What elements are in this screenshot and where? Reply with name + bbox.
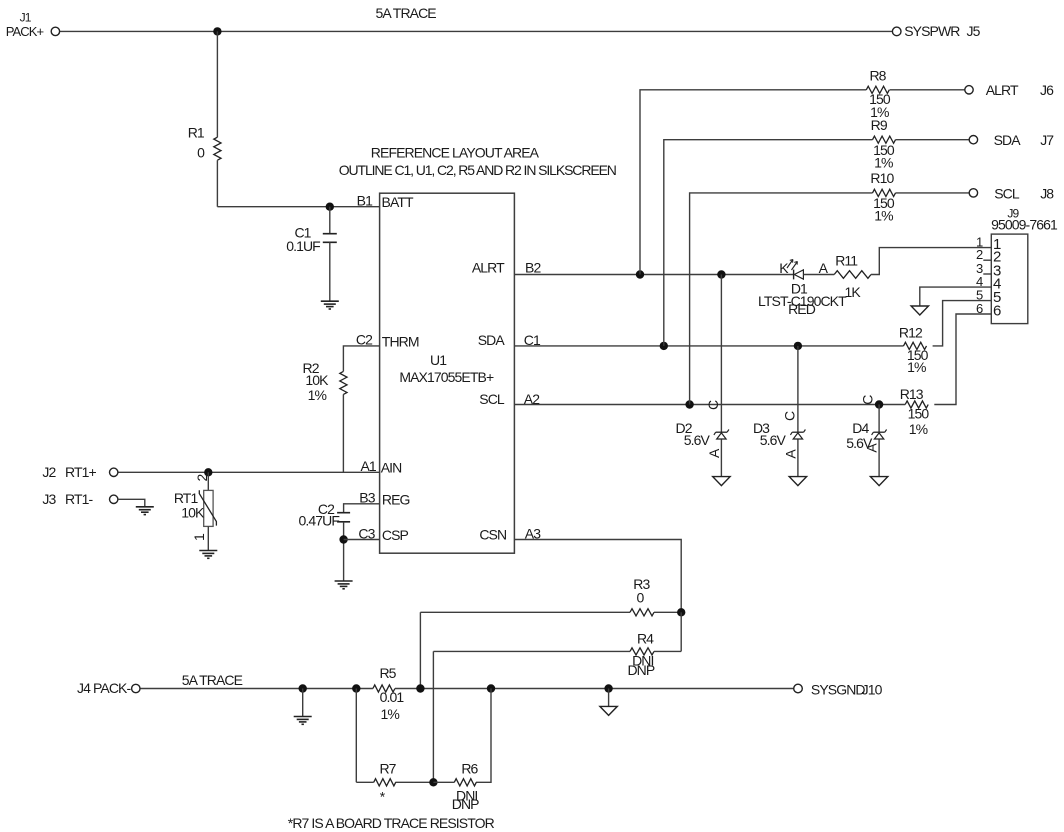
node R7 leg	[352, 684, 360, 692]
svg-text:0.47UF: 0.47UF	[298, 513, 339, 529]
svg-text:R6: R6	[461, 760, 478, 776]
svg-text:MAX17055ETB+: MAX17055ETB+	[399, 369, 494, 385]
terminal J10 SYSGND	[794, 684, 803, 693]
svg-text:R4: R4	[637, 630, 654, 646]
LED D1 LTST-C190CKT	[793, 270, 795, 280]
wire R3-R4 vertical	[680, 612, 682, 651]
wire J3 to ground	[118, 499, 145, 507]
svg-text:RT1-: RT1-	[65, 491, 93, 507]
svg-text:6: 6	[993, 302, 1001, 319]
wire R3 row	[420, 612, 681, 688]
wire SCL net	[514, 314, 991, 405]
capacitor C2	[337, 513, 350, 522]
svg-text:CSP: CSP	[382, 527, 409, 543]
svg-text:1%: 1%	[308, 387, 327, 403]
svg-text:D4: D4	[852, 420, 869, 436]
resistor R13 (SCL to pin6)	[905, 401, 928, 408]
resistor R2	[340, 371, 347, 394]
wire J2 RT1+ to AIN	[118, 471, 380, 473]
resistor R5	[373, 685, 395, 692]
zener D3	[797, 346, 799, 477]
svg-text:2: 2	[976, 247, 983, 262]
node R3 leg	[416, 684, 424, 692]
svg-text:J4 PACK-: J4 PACK-	[77, 680, 131, 696]
node SCL/R10	[685, 400, 693, 408]
node SCL/D4	[875, 400, 883, 408]
svg-text:J7: J7	[1040, 132, 1054, 148]
capacitor C1	[329, 207, 331, 233]
svg-text:*R7 IS A BOARD TRACE RESISTOR: *R7 IS A BOARD TRACE RESISTOR	[288, 815, 495, 831]
svg-text:OUTLINE C1, U1, C2, R5 AND R2: OUTLINE C1, U1, C2, R5 AND R2 IN SILKSCR…	[339, 162, 616, 178]
svg-text:R5: R5	[379, 665, 396, 681]
svg-text:2: 2	[194, 474, 210, 482]
svg-text:J6: J6	[1040, 82, 1054, 98]
svg-text:0: 0	[637, 590, 645, 606]
pin 3 stub	[983, 273, 991, 275]
svg-text:J3: J3	[42, 491, 56, 507]
svg-text:SCL: SCL	[479, 391, 505, 407]
wire top rail J1 to SYSPWR	[60, 30, 893, 32]
svg-text:ALRT: ALRT	[472, 260, 505, 276]
svg-text:B1: B1	[357, 193, 373, 209]
wire R7 row	[356, 689, 433, 783]
svg-text:CSN: CSN	[479, 527, 506, 543]
zener D2	[720, 275, 722, 477]
svg-text:150: 150	[908, 405, 930, 421]
node ALRT/R8	[636, 270, 644, 278]
node junction top rail	[213, 27, 221, 35]
ground (J3)	[136, 507, 154, 515]
node C1 tap	[326, 203, 334, 211]
terminal J1 PACK+	[51, 27, 59, 35]
terminal J2	[110, 468, 118, 476]
svg-text:0: 0	[197, 145, 205, 161]
svg-text:5A TRACE: 5A TRACE	[182, 672, 243, 688]
resistor R12 (SDA to pin5)	[904, 342, 927, 349]
resistor R4	[630, 648, 654, 655]
op-amp U1 MAX17055ETB+ box	[380, 193, 515, 553]
svg-text:SYSPWR: SYSPWR	[904, 23, 960, 39]
svg-text:J1: J1	[20, 11, 32, 25]
svg-text:RED: RED	[788, 301, 816, 317]
svg-text:J8: J8	[1040, 185, 1054, 201]
wire SDA net	[514, 301, 991, 346]
svg-text:REG: REG	[382, 491, 410, 507]
svg-text:R1: R1	[188, 125, 205, 141]
wire CSN to R3	[514, 540, 681, 613]
resistor R6	[454, 779, 476, 786]
svg-text:5.6V: 5.6V	[760, 432, 787, 448]
svg-text:PACK+: PACK+	[6, 24, 44, 39]
svg-text:C: C	[781, 411, 797, 421]
resistor R7	[374, 779, 396, 786]
wire R10 vertical	[690, 193, 970, 405]
node gnd tap	[299, 684, 307, 692]
svg-text:1%: 1%	[874, 208, 893, 224]
terminal J7 SDA	[969, 136, 977, 144]
wire R6 row	[433, 689, 491, 783]
ground (C2/CSP)	[335, 581, 353, 589]
svg-text:R8: R8	[869, 68, 886, 84]
svg-text:AIN: AIN	[381, 460, 402, 476]
svg-text:ALRT: ALRT	[986, 82, 1019, 98]
svg-text:DNP: DNP	[627, 662, 654, 678]
svg-text:R13: R13	[900, 386, 924, 402]
node R3/R4	[677, 608, 685, 616]
svg-text:U1: U1	[430, 352, 447, 368]
svg-text:1%: 1%	[874, 155, 893, 171]
node SDA/R9	[660, 342, 668, 350]
node R7/R4/R6	[429, 778, 437, 786]
svg-text:SDA: SDA	[478, 332, 506, 348]
svg-text:C: C	[860, 395, 876, 405]
node R6 leg	[487, 684, 495, 692]
svg-text:BATT: BATT	[382, 194, 414, 210]
wire LED anode to R11	[803, 274, 834, 276]
node SDA/D3	[794, 342, 802, 350]
svg-text:R7: R7	[379, 760, 396, 776]
svg-text:10K: 10K	[305, 372, 329, 388]
wire R11 to J9 pin1	[871, 248, 991, 275]
thermistor RT1	[207, 472, 209, 490]
svg-text:SDA: SDA	[994, 132, 1022, 148]
svg-text:0.01: 0.01	[380, 689, 405, 705]
svg-text:J5: J5	[967, 23, 981, 39]
wire R9 vertical	[664, 140, 969, 346]
node RT1 tap	[204, 468, 212, 476]
svg-text:6: 6	[976, 301, 983, 316]
svg-text:0.1UF: 0.1UF	[286, 238, 320, 254]
svg-text:SYSGND: SYSGND	[811, 681, 866, 697]
node CSP junction	[339, 535, 347, 543]
svg-text:R9: R9	[871, 117, 888, 133]
resistor R8	[866, 86, 889, 93]
terminal J3 RT1-	[110, 495, 118, 503]
connector J9 95009-7661	[991, 234, 1028, 324]
svg-text:10K: 10K	[181, 505, 205, 521]
resistor R1	[214, 137, 221, 160]
wire R4 row	[433, 651, 681, 782]
terminal J6 ALRT	[965, 86, 973, 94]
svg-text:DNP: DNP	[452, 796, 479, 812]
wire REG / C2	[344, 504, 380, 512]
svg-text:1%: 1%	[907, 359, 926, 375]
resistor R10	[873, 189, 896, 196]
terminal J8 SCL	[969, 189, 977, 197]
svg-text:RT1+: RT1+	[65, 464, 96, 480]
svg-text:REFERENCE LAYOUT AREA: REFERENCE LAYOUT AREA	[371, 145, 540, 161]
zener D4	[878, 405, 880, 477]
ground arrow (rail)	[608, 689, 610, 707]
wire BATT	[217, 206, 379, 208]
node gnd arrow tap	[604, 684, 612, 692]
svg-text:1%: 1%	[380, 706, 399, 722]
svg-text:R11: R11	[835, 252, 858, 268]
svg-text:B2: B2	[525, 260, 541, 276]
svg-text:J10: J10	[862, 681, 883, 697]
svg-text:THRM: THRM	[382, 333, 419, 349]
pin 4 wire to gnd arrow	[920, 287, 992, 306]
svg-text:R10: R10	[870, 170, 894, 186]
svg-text:5.6V: 5.6V	[684, 432, 711, 448]
svg-text:J2: J2	[42, 464, 56, 480]
terminal J5 SYSPWR	[892, 27, 901, 36]
node ALRT/D2	[717, 270, 725, 278]
wire R8 vertical	[640, 90, 965, 275]
pin 2 stub	[983, 259, 991, 261]
svg-text:5A TRACE: 5A TRACE	[376, 5, 437, 21]
terminal J4 PACK-	[132, 684, 140, 692]
resistor R3	[630, 609, 654, 616]
resistor R11	[834, 271, 871, 279]
wire ALRT net	[514, 274, 793, 276]
svg-text:1: 1	[191, 533, 207, 541]
ground (rail)	[302, 689, 304, 717]
wire CSP	[344, 539, 380, 541]
svg-text:C: C	[705, 400, 721, 410]
wire THRM / R2	[343, 346, 379, 472]
resistor R9	[873, 136, 896, 143]
ground (C1)	[321, 301, 339, 309]
wire R1 vertical	[216, 31, 218, 206]
svg-text:95009-7661: 95009-7661	[991, 216, 1058, 232]
wire bottom rail J4 to SYSGND	[140, 688, 794, 690]
svg-text:R12: R12	[899, 325, 923, 341]
svg-text:1K: 1K	[845, 284, 862, 300]
svg-text:SCL: SCL	[994, 185, 1020, 201]
svg-text:1%: 1%	[909, 421, 928, 437]
